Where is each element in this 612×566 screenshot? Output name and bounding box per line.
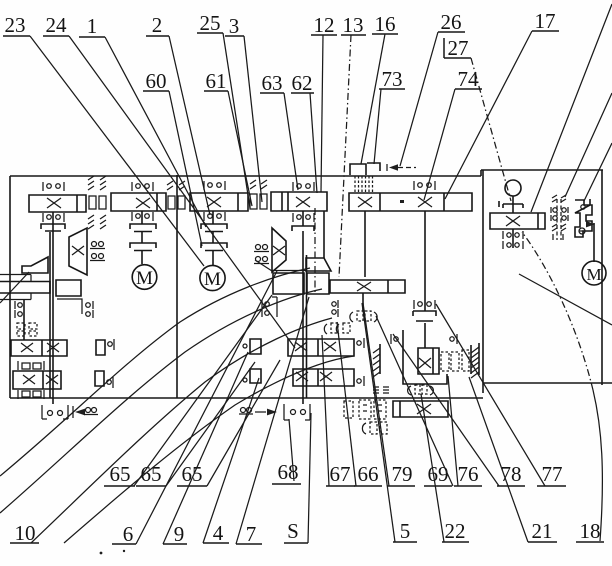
- cross G2b: [46, 375, 58, 384]
- bearing below F row1: [503, 231, 523, 239]
- leader 77: [436, 304, 545, 486]
- spindle pulley rect 2: [307, 273, 329, 294]
- hatched wall right: [471, 343, 479, 375]
- coupling C lower: [201, 243, 227, 251]
- cross G1Rb: [324, 342, 336, 351]
- pulley rect left 1: [0, 275, 31, 282]
- svg-text:M: M: [586, 265, 601, 284]
- bearing above D: [293, 182, 314, 191]
- shaft below lower box: [362, 293, 364, 311]
- leader 22: [421, 394, 444, 542]
- svg-text:6: 6: [123, 522, 134, 546]
- bearing above C: [204, 181, 225, 190]
- leader 61: [228, 91, 252, 206]
- shift fork left lower: [95, 371, 104, 386]
- leader 65 second: [166, 362, 255, 486]
- cross vertical gear: [419, 358, 431, 368]
- sliding gear dashed 2: [451, 352, 459, 371]
- svg-text:16: 16: [375, 12, 396, 36]
- svg-text:77: 77: [542, 462, 563, 486]
- shaft from clamp to motor M3: [593, 223, 595, 262]
- coupling C upper: [201, 224, 227, 232]
- thrust arrow symbol left: [72, 406, 74, 418]
- feed box below frame: [393, 401, 448, 417]
- datum tick and left arrow near 26: [386, 164, 388, 171]
- gear cross C: [207, 197, 221, 207]
- shaft from E2 down: [424, 211, 426, 348]
- bearing marks left pair: [14, 301, 16, 318]
- leader 23: [30, 36, 204, 266]
- svg-text:26: 26: [441, 10, 462, 34]
- cross G1a: [21, 343, 33, 352]
- spindle bearing below frame: [284, 404, 310, 420]
- pin mark above sliding gears: [450, 337, 454, 341]
- svg-text:22: 22: [445, 519, 466, 543]
- leader S: [308, 413, 311, 543]
- svg-text:73: 73: [382, 67, 403, 91]
- leader 68: [289, 419, 294, 481]
- gear cross D: [296, 197, 310, 207]
- bearing below B: [132, 212, 153, 221]
- leader 2: [169, 36, 210, 215]
- pin dot E: [400, 200, 404, 203]
- pulley rect left 2: [56, 280, 81, 296]
- bearing above E: [414, 181, 435, 190]
- leader from right edge c: [584, 143, 612, 201]
- leader 76: [448, 376, 458, 486]
- leader 79: [363, 303, 389, 486]
- gearbox block C: [190, 193, 248, 211]
- svg-text:74: 74: [458, 67, 480, 91]
- gear cross B: [136, 198, 150, 208]
- svg-text:9: 9: [174, 522, 185, 546]
- cross lower box: [357, 282, 371, 291]
- right assembly bottom edge: [483, 382, 612, 384]
- chain mark below sliders: [362, 423, 366, 434]
- svg-text:67: 67: [330, 462, 351, 486]
- leader from right edge a: [531, 4, 612, 212]
- gear cross A: [47, 198, 61, 208]
- jaw clutch B-C: [168, 196, 185, 209]
- leader 62: [310, 93, 317, 193]
- svg-text:5: 5: [400, 519, 411, 543]
- right assembly right edge: [601, 170, 603, 385]
- leader 9: [163, 352, 248, 544]
- leader 78: [393, 334, 499, 486]
- leader 60: [169, 91, 202, 246]
- off-image leader left shallow lower: [0, 289, 322, 513]
- gearbox G1: [11, 340, 67, 356]
- motor M1 circle: [200, 265, 225, 290]
- handwheel stem: [512, 196, 514, 213]
- gearbox block B: [111, 193, 166, 211]
- leader 7: [236, 297, 309, 544]
- svg-text:60: 60: [146, 69, 167, 93]
- hatched wall mid: [379, 344, 381, 374]
- leader 18 curved: [593, 390, 602, 541]
- svg-text:68: 68: [278, 460, 299, 484]
- slider bracket row below: [18, 390, 44, 399]
- leader 24: [69, 36, 295, 348]
- spindle second shaft line: [306, 255, 308, 398]
- leader 10: [31, 318, 332, 543]
- svg-text:17: 17: [535, 9, 556, 33]
- leader 26: [400, 32, 438, 166]
- belt line below cone2: [272, 270, 306, 272]
- svg-text:3: 3: [229, 14, 240, 38]
- leader 67: [322, 335, 329, 486]
- svg-text:69: 69: [428, 462, 449, 486]
- off-image leader left shallow upper: [0, 268, 310, 476]
- U bracket for vertical gear: [403, 330, 447, 384]
- roller column marks: [332, 302, 336, 306]
- vertical gear box: [418, 348, 439, 374]
- svg-text:62: 62: [292, 71, 313, 95]
- bearing below frame left: [42, 405, 68, 419]
- bearing below F row2: [503, 241, 523, 249]
- svg-text:12: 12: [314, 13, 335, 37]
- svg-text:M: M: [204, 269, 221, 290]
- gearbox G2R: [293, 369, 354, 386]
- shift fork right upper: [250, 339, 261, 354]
- speck dot b: [123, 550, 125, 552]
- handwheel circle: [505, 180, 521, 196]
- leader 13: [339, 35, 351, 277]
- svg-text:24: 24: [46, 13, 68, 37]
- leader 25: [223, 33, 250, 208]
- cross in cone 1: [72, 246, 84, 255]
- wedge pulley right: [306, 258, 331, 271]
- shaft I vertical: [50, 212, 53, 404]
- left sub shaft: [23, 300, 25, 340]
- coupling bracket below D: [292, 226, 314, 231]
- chain symbol left-dashed pair: [324, 324, 327, 334]
- gearbox G2: [13, 371, 61, 389]
- leader 5: [362, 303, 395, 542]
- svg-text:25: 25: [200, 11, 221, 35]
- coupling B lower: [130, 243, 156, 251]
- frame left edge: [9, 176, 11, 398]
- frame bottom edge: [10, 397, 483, 399]
- shaft below F: [512, 229, 514, 248]
- sliding gear dashed 3: [462, 350, 469, 371]
- clamp bracket part: [575, 199, 592, 237]
- leader to off-image right: [519, 274, 612, 325]
- hatch below clutch A-B: [88, 215, 106, 229]
- leader 21: [469, 377, 528, 542]
- coupling B upper: [130, 224, 156, 232]
- leader 12: [321, 35, 323, 192]
- leader 4: [203, 378, 259, 543]
- svg-text:13: 13: [343, 13, 364, 37]
- chain symbol BB mid: [350, 312, 353, 322]
- svg-text:M: M: [136, 268, 153, 289]
- shaft from E1 down: [364, 211, 366, 277]
- shaft III vertical to M1: [212, 211, 214, 265]
- handwheel bar: [499, 201, 523, 208]
- svg-text:2: 2: [152, 13, 163, 37]
- clamp circle lower: [579, 228, 585, 234]
- svg-text:66: 66: [358, 462, 379, 486]
- belt dashed strips below: [355, 176, 373, 193]
- bearing below A: [43, 213, 64, 222]
- section divider wall 1: [176, 175, 178, 398]
- frame right edge of main housing: [482, 170, 484, 393]
- roller pair left of cone 2: [256, 245, 261, 250]
- rack hatch marks: [373, 387, 389, 393]
- roller pair right of cone 1: [92, 242, 97, 247]
- bearing above B: [132, 182, 153, 191]
- leader 73: [374, 89, 381, 164]
- gear cross E2: [418, 197, 432, 207]
- shaft II vertical to M2: [141, 211, 143, 264]
- svg-text:63: 63: [262, 71, 283, 95]
- chain symbol left dashed: [17, 323, 37, 336]
- leader 63: [284, 93, 298, 190]
- shift fork right lower: [250, 369, 261, 383]
- svg-text:65: 65: [141, 462, 162, 486]
- leadscrew dashed shafts: [557, 199, 561, 240]
- leader 17: [445, 31, 532, 199]
- bearing below C: [204, 212, 225, 221]
- gearbox G1R: [288, 339, 354, 356]
- sliding gear dashed 1: [441, 352, 449, 371]
- svg-text:18: 18: [580, 519, 601, 543]
- bracket above frame at E: [367, 163, 380, 171]
- svg-text:1: 1: [87, 14, 98, 38]
- jaw clutch C-D: [250, 194, 267, 209]
- lower drive box: [330, 280, 405, 293]
- leader 65 first: [134, 295, 272, 486]
- leader 65 third: [207, 360, 280, 486]
- shift fork left upper: [96, 340, 105, 355]
- leader 69: [376, 316, 453, 486]
- pin mark right of G2R: [357, 379, 361, 383]
- off-image leader W4: [64, 356, 354, 543]
- leader 1: [105, 37, 206, 227]
- leadscrew column left: [552, 195, 557, 206]
- leadscrew column right: [561, 195, 566, 202]
- bearing below D: [293, 213, 314, 222]
- cross G2Ra: [296, 372, 308, 381]
- svg-text:76: 76: [458, 462, 479, 486]
- cross in cone 2: [273, 246, 285, 255]
- svg-text:7: 7: [246, 522, 257, 546]
- leader 27: [471, 58, 511, 201]
- bearing above A: [43, 182, 64, 191]
- gearbox block E long: [349, 193, 472, 211]
- gearbox block F right assembly: [490, 213, 545, 229]
- spindle pulley rect 1: [273, 273, 304, 294]
- leader 6: [136, 271, 277, 544]
- svg-text:4: 4: [213, 521, 224, 545]
- slider bracket row mid: [18, 361, 44, 370]
- bracket from pulley to idler: [57, 299, 82, 314]
- leader from right edge b: [565, 93, 612, 197]
- svg-text:79: 79: [392, 462, 413, 486]
- pin mark left of U bracket: [394, 337, 398, 341]
- speck dot a: [100, 552, 103, 555]
- svg-text:65: 65: [182, 462, 203, 486]
- coupling on vertical shaft right: [413, 311, 436, 321]
- svg-text:21: 21: [532, 519, 553, 543]
- cone pulley 1: [69, 228, 87, 275]
- jaw clutch A-B: [89, 196, 106, 209]
- dashed slider boxes below frame: [344, 400, 386, 419]
- belt diagonal to cone: [255, 260, 272, 271]
- frame top edge of main housing: [10, 170, 603, 176]
- wedge pulley left: [22, 257, 48, 273]
- bearing on coupling column right: [414, 300, 435, 309]
- spindle centerline dash-dot: [314, 208, 316, 292]
- cross G2a: [23, 375, 35, 384]
- svg-text:61: 61: [206, 69, 227, 93]
- cross G1Ra: [295, 342, 307, 351]
- belt housing box above frame at E: [350, 164, 366, 175]
- thrust symbol at spindle nose: [241, 408, 246, 413]
- clamp arrow right: [586, 221, 595, 227]
- hatch above clutch B-C: [167, 181, 185, 190]
- svg-text:27: 27: [448, 36, 469, 60]
- idler marks right: [86, 303, 91, 308]
- pin mark right of G1R: [357, 341, 361, 345]
- gear cross E1: [358, 197, 372, 207]
- idler bracket above right forks: [261, 300, 263, 317]
- gearbox block D: [271, 192, 327, 211]
- hatch above clutch C-D: [250, 180, 267, 189]
- stray leader lower left: [0, 272, 29, 303]
- cone pulley 2: [272, 228, 286, 272]
- motor M2 circle: [132, 265, 157, 290]
- svg-text:23: 23: [5, 13, 26, 37]
- cross feed box: [417, 404, 431, 414]
- clamp circle upper: [581, 205, 585, 209]
- coupling on shaft A: [41, 224, 65, 231]
- leadscrew verticals: [553, 234, 563, 240]
- gearbox block A: [29, 195, 86, 212]
- svg-text:S: S: [287, 519, 299, 543]
- chain symbol BB low: [408, 386, 411, 395]
- leader 3: [244, 36, 262, 202]
- motor M3 circle right edge: [582, 261, 606, 285]
- leader 16: [361, 34, 385, 164]
- cross G1b: [47, 343, 59, 352]
- leader 74: [424, 89, 455, 200]
- hatch above clutch A-B: [88, 176, 106, 190]
- gear cross F: [506, 216, 520, 226]
- spindle shaft vertical: [302, 211, 304, 404]
- aux shaft from box D right to wedge: [323, 211, 325, 258]
- leader 66: [337, 322, 356, 486]
- cross G2Rb: [320, 372, 332, 381]
